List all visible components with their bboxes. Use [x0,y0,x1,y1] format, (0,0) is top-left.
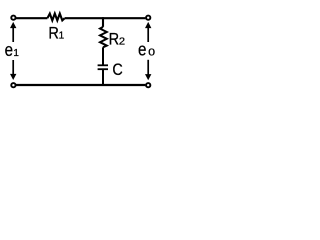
wire bottom [16,84,145,86]
arrow e1 up [10,22,16,42]
label R2 [109,29,126,48]
label R1 [48,24,64,43]
terminal top-left [11,16,15,20]
capacitor C bottom plate [98,68,108,70]
terminal bottom-right [146,83,150,87]
wire top-right segment [65,17,146,19]
node junction top of R2 branch [102,17,104,27]
arrow e1 down [10,60,16,80]
resistor R1 [47,14,64,21]
svg-text:2: 2 [119,36,126,47]
svg-text:1: 1 [59,31,65,42]
wire R2 to capacitor [102,47,104,64]
svg-text:0: 0 [148,48,155,59]
arrow e0 up [145,22,151,42]
svg-text:e: e [138,40,146,60]
terminal bottom-left [11,83,15,87]
label e1 [5,40,20,60]
svg-text:C: C [112,60,122,79]
wire capacitor to bottom [102,70,104,85]
resistor R2 [100,27,107,47]
label C [112,60,122,79]
svg-text:e: e [5,40,13,60]
svg-text:R: R [109,29,120,48]
arrow e0 down [145,60,151,80]
label e0 [138,40,156,60]
capacitor C top plate [98,64,108,66]
svg-text:1: 1 [13,48,19,59]
wire top-left segment [16,17,47,19]
terminal top-right [146,16,150,20]
svg-text:R: R [48,24,59,43]
